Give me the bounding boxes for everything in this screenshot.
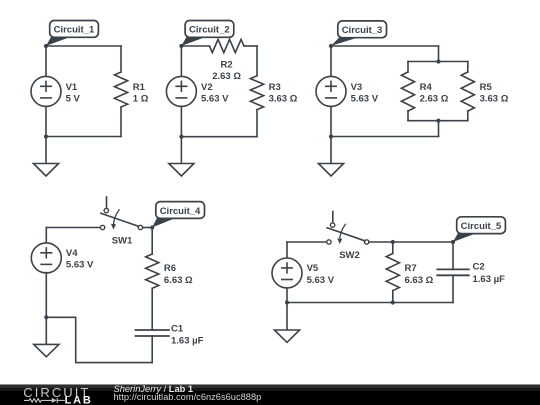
svg-text:C2: C2 [473, 262, 485, 273]
wire V1 bottom lead [45, 106, 47, 136]
svg-text:http://circuitlab.com/c6nz6s6u: http://circuitlab.com/c6nz6s6uc888p [114, 392, 262, 402]
wire parallel top rail [408, 61, 468, 63]
label V5 value 5.63 V [307, 263, 335, 286]
capacitor C2 [437, 269, 469, 275]
wire C2 bottom lead [452, 275, 454, 302]
svg-text:R2: R2 [221, 60, 233, 71]
wire R7 top lead [392, 242, 394, 254]
wire R7 bottom lead [392, 291, 394, 303]
svg-text:SW1: SW1 [112, 235, 133, 246]
svg-text:5.63 V: 5.63 V [307, 275, 335, 286]
wire bottom rail circuit 3 [331, 136, 439, 138]
svg-text:V3: V3 [351, 82, 363, 93]
junction node R7 top [391, 240, 395, 244]
wire V4 top lead [45, 228, 47, 244]
wire bottom rail circuit 2 [181, 136, 257, 138]
junction node bottom-left circuit 3 [329, 134, 333, 138]
junction node parallel top [436, 59, 440, 63]
label R3 value 3.63 ohm [269, 82, 298, 105]
callout Circuit_2 [181, 21, 233, 46]
svg-text:2.63 Ω: 2.63 Ω [420, 94, 449, 105]
footer background [0, 384, 540, 405]
wire C2 top lead [452, 242, 454, 269]
callout Circuit_3 [331, 21, 387, 46]
wire C1 bottom lead [151, 336, 153, 363]
junction node top-left circuit 3 [329, 44, 333, 48]
label R7 value 6.63 ohm [405, 263, 434, 286]
label V2 value 5.63 V [201, 82, 229, 105]
junction node top-left circuit 2 [179, 44, 183, 48]
voltage source V3 [316, 76, 346, 106]
resistor R2 [209, 39, 257, 52]
junction node bottom-left circuit 2 [179, 135, 183, 139]
label C1 value 1.63 uF [171, 323, 204, 346]
wire switch SW2 to R7 node [369, 241, 393, 243]
wire V3 top lead [330, 46, 332, 76]
wire R6 top lead [151, 228, 153, 255]
svg-text:R1: R1 [133, 82, 146, 93]
resistor R7 [386, 254, 399, 291]
label R5 value 3.63 ohm [480, 82, 509, 105]
resistor R3 [250, 46, 263, 137]
wire top rail to switch SW1 [46, 227, 100, 229]
svg-text:Circuit_4: Circuit_4 [160, 206, 201, 217]
label R1 value 1 ohm [133, 82, 149, 105]
svg-text:2.63 Ω: 2.63 Ω [212, 71, 241, 82]
svg-text:1 Ω: 1 Ω [133, 94, 149, 105]
callout Circuit_4 [152, 202, 204, 228]
resistor R4 [401, 62, 414, 121]
svg-text:5.63 V: 5.63 V [351, 94, 379, 105]
resistor R6 [146, 254, 159, 288]
wire bottom rail circuit 5 [287, 302, 453, 304]
label R4 value 2.63 ohm [420, 82, 449, 105]
resistor R1 [114, 46, 127, 137]
wire R7 node to C2 node [393, 241, 453, 243]
label V4 value 5.63 V [66, 248, 94, 271]
ground circuit 1 [33, 137, 58, 177]
junction node switch-R6 circuit 4 [150, 225, 154, 229]
wire switch SW1 to node [143, 227, 153, 229]
svg-text:R6: R6 [164, 263, 176, 274]
junction node C2 top [451, 240, 455, 244]
label C2 value 1.63 uF [473, 262, 506, 285]
wire parallel bottom rail [408, 120, 468, 122]
svg-text:V4: V4 [66, 248, 78, 259]
wire V1 top lead [45, 46, 47, 76]
wire top drop to parallel network [438, 46, 440, 62]
svg-text:5 V: 5 V [66, 94, 81, 105]
ground circuit 2 [169, 137, 194, 176]
junction node parallel bottom [436, 119, 440, 123]
svg-text:R5: R5 [480, 82, 493, 93]
label V1 value 5 V [66, 82, 81, 105]
junction node bottom-left circuit 1 [44, 134, 48, 138]
svg-text:R4: R4 [420, 82, 433, 93]
svg-text:Circuit_2: Circuit_2 [189, 25, 230, 36]
svg-text:1.63 µF: 1.63 µF [473, 274, 506, 285]
svg-text:6.63 Ω: 6.63 Ω [405, 275, 434, 286]
junction node top-left circuit 1 [44, 44, 48, 48]
voltage source V1 [31, 76, 61, 106]
label R6 value 6.63 ohm [164, 263, 193, 286]
wire V2 top lead [180, 46, 182, 76]
svg-text:6.63 Ω: 6.63 Ω [164, 275, 193, 286]
label V3 value 5.63 V [351, 82, 379, 105]
capacitor C1 [136, 330, 169, 336]
svg-text:Circuit_1: Circuit_1 [54, 25, 95, 36]
svg-text:LAB: LAB [65, 394, 93, 405]
wire V4 bottom lead [45, 273, 47, 318]
wire bottom rail circuit 1 [46, 136, 121, 138]
switch SW2 [327, 212, 369, 245]
callout Circuit_5 [453, 217, 505, 242]
wire R6 to C1 [151, 288, 153, 330]
label SW1 [112, 235, 133, 246]
junction node R7 bottom [391, 300, 395, 304]
svg-text:Circuit_3: Circuit_3 [342, 25, 383, 36]
wire V5 top lead [286, 242, 288, 258]
ground circuit 3 [318, 137, 343, 177]
voltage source V2 [166, 76, 196, 106]
wire bottom rail circuit 4 [46, 317, 152, 362]
svg-text:V1: V1 [66, 82, 78, 93]
wire top rail circuit 1 [46, 45, 121, 47]
junction node bottom-left circuit 4 [44, 315, 48, 319]
wire top-left to R2 [181, 45, 209, 47]
svg-text:5.63 V: 5.63 V [66, 260, 94, 271]
svg-text:C1: C1 [171, 323, 184, 334]
svg-text:1.63 µF: 1.63 µF [171, 335, 204, 346]
wire top rail to switch SW2 [287, 241, 327, 243]
voltage source V4 [31, 243, 61, 273]
svg-text:SW2: SW2 [339, 250, 360, 261]
voltage source V5 [272, 258, 302, 288]
svg-text:Circuit_5: Circuit_5 [461, 221, 502, 232]
svg-text:3.63 Ω: 3.63 Ω [480, 94, 509, 105]
svg-text:5.63 V: 5.63 V [201, 94, 229, 105]
switch SW1 [100, 197, 142, 230]
svg-text:3.63 Ω: 3.63 Ω [269, 94, 298, 105]
wire bottom drop from parallel network [438, 121, 440, 137]
wire V2 bottom lead [180, 106, 182, 136]
junction node bottom-left circuit 5 [285, 300, 289, 304]
ground circuit 5 [274, 303, 299, 343]
svg-text:R7: R7 [405, 263, 417, 274]
label SW2 [339, 250, 360, 261]
wire top rail circuit 3 [331, 45, 439, 47]
svg-text:V2: V2 [201, 82, 213, 93]
resistor R5 [461, 62, 474, 121]
svg-text:R3: R3 [269, 82, 281, 93]
logo resistor-diode glyph [24, 398, 65, 403]
ground circuit 4 [34, 317, 59, 357]
wire V5 bottom lead [286, 288, 288, 303]
wire V3 bottom lead [330, 106, 332, 136]
callout Circuit_1 [46, 21, 98, 46]
label R2 value 2.63 ohm [212, 60, 241, 83]
svg-text:V5: V5 [307, 263, 319, 274]
